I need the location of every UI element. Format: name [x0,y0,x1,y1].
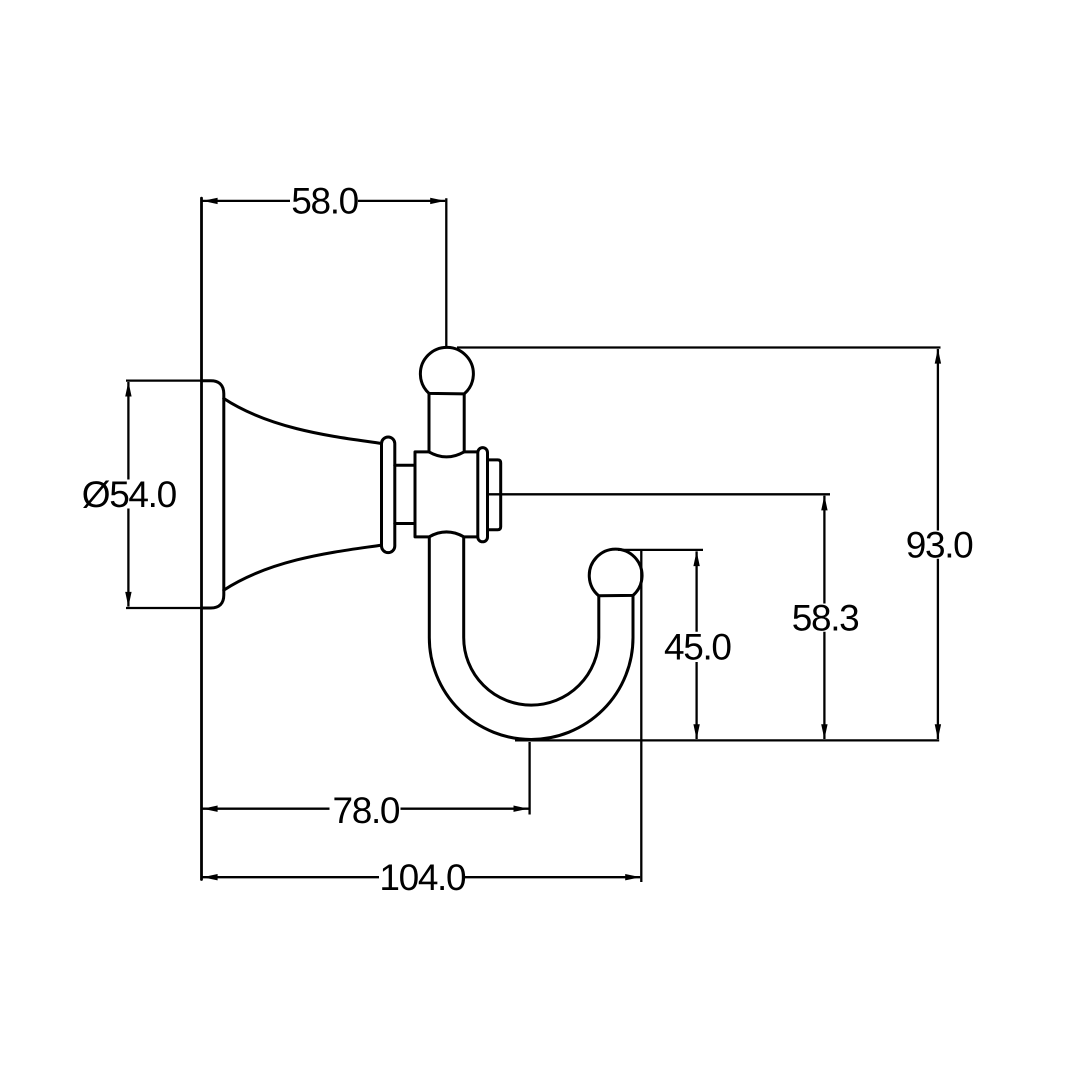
dim O54 extension lines [126,381,211,608]
dim 58.3 extension [488,493,831,495]
body block [415,452,478,537]
svg-text:58.0: 58.0 [291,181,358,222]
neck top line [395,464,415,467]
bell bottom profile [224,545,382,590]
post below top ball [429,393,464,452]
top ball [420,347,473,394]
dim 58.0 arrows [203,198,446,204]
dim 93.0 extension top [457,346,941,348]
flange plate [202,381,224,608]
end cap right [488,460,501,530]
dim 58.0 line [203,200,446,202]
dim 104.0 arrows [203,874,641,880]
dim O54 line [127,382,129,607]
dim 78.0 line [203,808,529,810]
hook end ball [589,549,642,596]
svg-text:45.0: 45.0 [664,627,731,668]
collar ring left [382,437,395,553]
neck bottom line [395,522,415,525]
dim 104.0 line [203,876,641,878]
hook tube outline [429,537,633,740]
dim 45.0 extension [618,549,703,551]
dim 104.0 extension right [640,550,642,882]
dim 93.0 line [937,349,939,739]
dim 45.0 line [695,551,697,739]
dim 78.0 arrows [203,806,529,812]
dim 78.0 extension right [528,742,530,815]
bell top profile [224,399,382,444]
svg-text:58.3: 58.3 [792,597,859,638]
svg-text:104.0: 104.0 [379,857,466,898]
dim 58.3 line [823,496,825,739]
baseline extension bottom [515,739,939,741]
collar ring right [478,448,488,542]
dim 45.0 arrows [693,551,699,739]
dim 58.0 extension right [445,198,447,348]
dim 58.3 arrows [821,495,827,739]
svg-text:78.0: 78.0 [332,790,399,831]
svg-text:93.0: 93.0 [906,524,973,565]
dim O54 arrows [125,382,131,607]
svg-text:Ø54.0: Ø54.0 [82,474,177,515]
dim 93.0 arrows [935,349,941,740]
wall line [200,198,203,879]
